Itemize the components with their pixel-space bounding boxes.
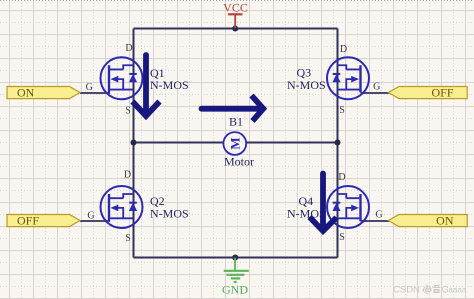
junction VCC node — [232, 26, 238, 32]
wire motor rail right — [246, 142, 338, 144]
svg-text:S: S — [339, 232, 345, 243]
wire gate Q2 — [80, 220, 110, 222]
watermark CSDN — [393, 285, 467, 296]
svg-text:D: D — [338, 172, 345, 183]
svg-text:M: M — [227, 137, 242, 149]
transistor Q2 — [101, 186, 143, 228]
wire top rail — [134, 28, 338, 30]
current arrow B1 right — [202, 96, 264, 122]
svg-text:G: G — [375, 209, 382, 220]
svg-text:ON: ON — [17, 85, 35, 99]
svg-text:D: D — [125, 43, 132, 54]
motor B1 — [223, 132, 246, 155]
current arrow Q4 down — [310, 174, 337, 232]
svg-text:OFF: OFF — [17, 213, 39, 227]
junction GND node — [232, 255, 238, 261]
transistor Q4 — [327, 186, 369, 228]
transistor Q3 — [327, 57, 369, 99]
svg-text:B1: B1 — [229, 114, 243, 128]
transistor Q1 — [101, 57, 143, 99]
wire gate Q3 — [361, 92, 390, 94]
svg-text:S: S — [125, 233, 131, 244]
port ON right — [388, 213, 467, 227]
wire gate Q4 — [361, 220, 390, 222]
svg-text:CSDN @: CSDN @ — [393, 285, 432, 296]
power VCC — [223, 1, 248, 29]
svg-text:G: G — [373, 82, 380, 93]
svg-text:S: S — [125, 106, 131, 117]
port ON left — [7, 85, 80, 99]
svg-text:N-MOS: N-MOS — [287, 207, 326, 221]
svg-text:D: D — [340, 44, 347, 55]
svg-text:ON: ON — [436, 213, 454, 227]
junction motor left — [131, 140, 137, 146]
svg-text:N-MOS: N-MOS — [150, 78, 189, 92]
wire motor rail left — [134, 142, 224, 144]
port OFF right — [388, 85, 467, 99]
svg-text:G: G — [86, 82, 93, 93]
wire bottom rail — [134, 257, 338, 259]
wire right branch upper — [337, 29, 339, 143]
wire left branch lower — [133, 143, 135, 258]
ground GND — [222, 258, 249, 297]
port OFF left — [7, 213, 80, 227]
svg-text:aaaa: aaaa — [449, 286, 467, 295]
junction motor right — [335, 140, 341, 146]
svg-text:VCC: VCC — [223, 1, 248, 15]
svg-text:S: S — [339, 105, 345, 116]
svg-text:Motor: Motor — [224, 155, 254, 169]
svg-text:D: D — [124, 170, 131, 181]
wire gate Q1 — [80, 92, 110, 94]
svg-text:N-MOS: N-MOS — [287, 78, 326, 92]
svg-text:GND: GND — [222, 283, 248, 297]
svg-text:N-MOS: N-MOS — [150, 207, 189, 221]
svg-text:G: G — [87, 210, 94, 221]
wire left branch upper — [133, 29, 135, 143]
current arrow Q1 down — [133, 55, 160, 116]
wire right branch lower — [337, 143, 339, 258]
svg-text:OFF: OFF — [431, 85, 453, 99]
